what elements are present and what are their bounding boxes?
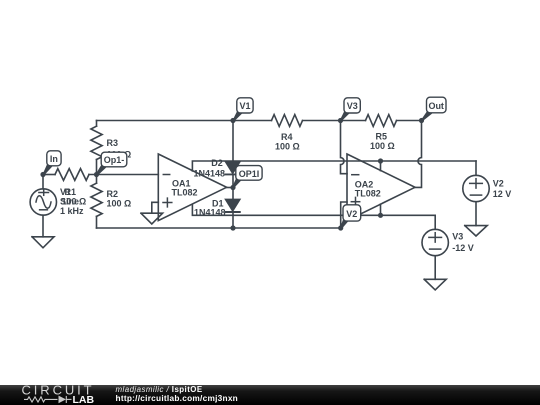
junction dots: [40, 118, 424, 231]
node flag In: [43, 151, 62, 176]
voltage source V3 -12V: [422, 229, 448, 279]
svg-text:TL082: TL082: [172, 188, 198, 198]
wire top rail segment left: [97, 120, 272, 122]
svg-text:http://circuitlab.com/cmj3nxn: http://circuitlab.com/cmj3nxn: [116, 393, 239, 403]
voltage source V2 12V: [463, 175, 489, 225]
wire R1 to OA1 inverting input: [89, 174, 158, 176]
wire In node to R1: [43, 174, 55, 176]
label OA2: [355, 179, 381, 198]
junction D1 bottom rail: [230, 225, 235, 230]
ground under V1: [32, 237, 54, 248]
resistor R2: [91, 175, 102, 229]
node In junction: [40, 172, 45, 177]
node V1 junction: [230, 118, 235, 123]
wire top rail segment middle: [303, 120, 366, 122]
resistor R3: [91, 121, 102, 175]
wire OA2 V+ pin stub: [380, 161, 382, 171]
ground under V2: [465, 226, 487, 236]
node flag V2: [340, 205, 361, 229]
junction V2 flag bottom rail: [338, 225, 343, 230]
svg-text:100 Ω: 100 Ω: [275, 142, 300, 152]
label R2: [107, 189, 132, 209]
svg-text:100 Ω: 100 Ω: [370, 141, 395, 151]
node flag V3: [340, 98, 361, 122]
svg-text:-12 V: -12 V: [452, 243, 474, 253]
junction OA2 V+ stub: [378, 158, 383, 163]
label V3 source: [452, 232, 474, 253]
svg-text:100 Ω: 100 Ω: [62, 197, 87, 207]
svg-text:LAB: LAB: [73, 394, 95, 405]
footer bar: [0, 383, 540, 405]
svg-text:R5: R5: [376, 132, 388, 142]
svg-text:V3: V3: [452, 232, 463, 242]
svg-text:1N4148: 1N4148: [194, 208, 226, 218]
node V3 junction: [338, 118, 343, 123]
wire V1 node down to D2: [232, 121, 234, 162]
node Op1- junction: [94, 172, 99, 177]
wire OA2 output up to Out node with hop: [415, 121, 422, 188]
svg-text:R2: R2: [107, 189, 119, 199]
svg-text:12 V: 12 V: [493, 189, 512, 199]
svg-text:V2: V2: [346, 209, 357, 219]
label R5: [370, 132, 395, 152]
wire V3 node feedback to OA2 inverting input with hop: [341, 121, 348, 174]
svg-text:TL082: TL082: [355, 188, 381, 198]
ground under V3: [424, 279, 446, 290]
svg-text:OP1I: OP1I: [239, 169, 260, 179]
label OA1: [172, 179, 198, 198]
node flag Out: [421, 97, 446, 121]
node Out junction: [419, 118, 424, 123]
svg-text:V2: V2: [493, 178, 504, 188]
resistor R5: [366, 115, 397, 127]
wire V+ supply rail with OA1 stub: [192, 161, 476, 175]
svg-text:Out: Out: [428, 101, 444, 111]
resistor R1: [55, 169, 89, 181]
voltage source V1 sine: [30, 175, 56, 237]
diode D1 1N4148: [226, 188, 240, 229]
wire D2 cathode to OA1 output node: [232, 175, 234, 188]
wire OA1 output: [227, 187, 233, 189]
resistor R4: [272, 115, 303, 127]
wire bottom rail: [97, 227, 341, 229]
wire OA2 V- pin stub: [380, 204, 382, 215]
svg-text:R1: R1: [65, 187, 77, 197]
svg-text:100 Ω: 100 Ω: [107, 199, 132, 209]
node OP1I junction: [230, 185, 235, 190]
diode D2 1N4148: [226, 162, 240, 175]
junction OA2 V- stub: [378, 213, 383, 218]
label V2 source: [493, 178, 512, 198]
svg-text:V1: V1: [239, 101, 250, 111]
label D2: [194, 158, 226, 179]
label D1: [194, 199, 226, 218]
ground at OA1 non-inverting input: [141, 213, 163, 224]
svg-text:R4: R4: [281, 132, 293, 142]
node flag Op1-: [96, 152, 127, 176]
wire OA2 + input down to bottom rail: [341, 202, 347, 228]
wire top rail segment right: [397, 120, 422, 122]
svg-text:Op1-: Op1-: [104, 155, 125, 165]
svg-text:D2: D2: [211, 158, 223, 168]
node flag V1: [233, 98, 254, 122]
op-amp OA2: [347, 154, 415, 221]
label R4: [275, 132, 300, 152]
value label R3: [107, 138, 132, 160]
svg-text:V3: V3: [347, 101, 358, 111]
node flag OP1I: [232, 166, 262, 189]
wire OA1 + input to ground: [152, 202, 159, 213]
svg-text:R3: R3: [107, 138, 119, 148]
wire V- supply rail with OA1 stub: [192, 205, 435, 230]
label R1: [62, 187, 87, 207]
op-amp OA1: [158, 154, 226, 221]
svg-text:1N4148: 1N4148: [194, 169, 226, 179]
label V1 source: [60, 187, 84, 216]
svg-text:1 kHz: 1 kHz: [60, 206, 84, 216]
svg-text:In: In: [50, 154, 58, 164]
